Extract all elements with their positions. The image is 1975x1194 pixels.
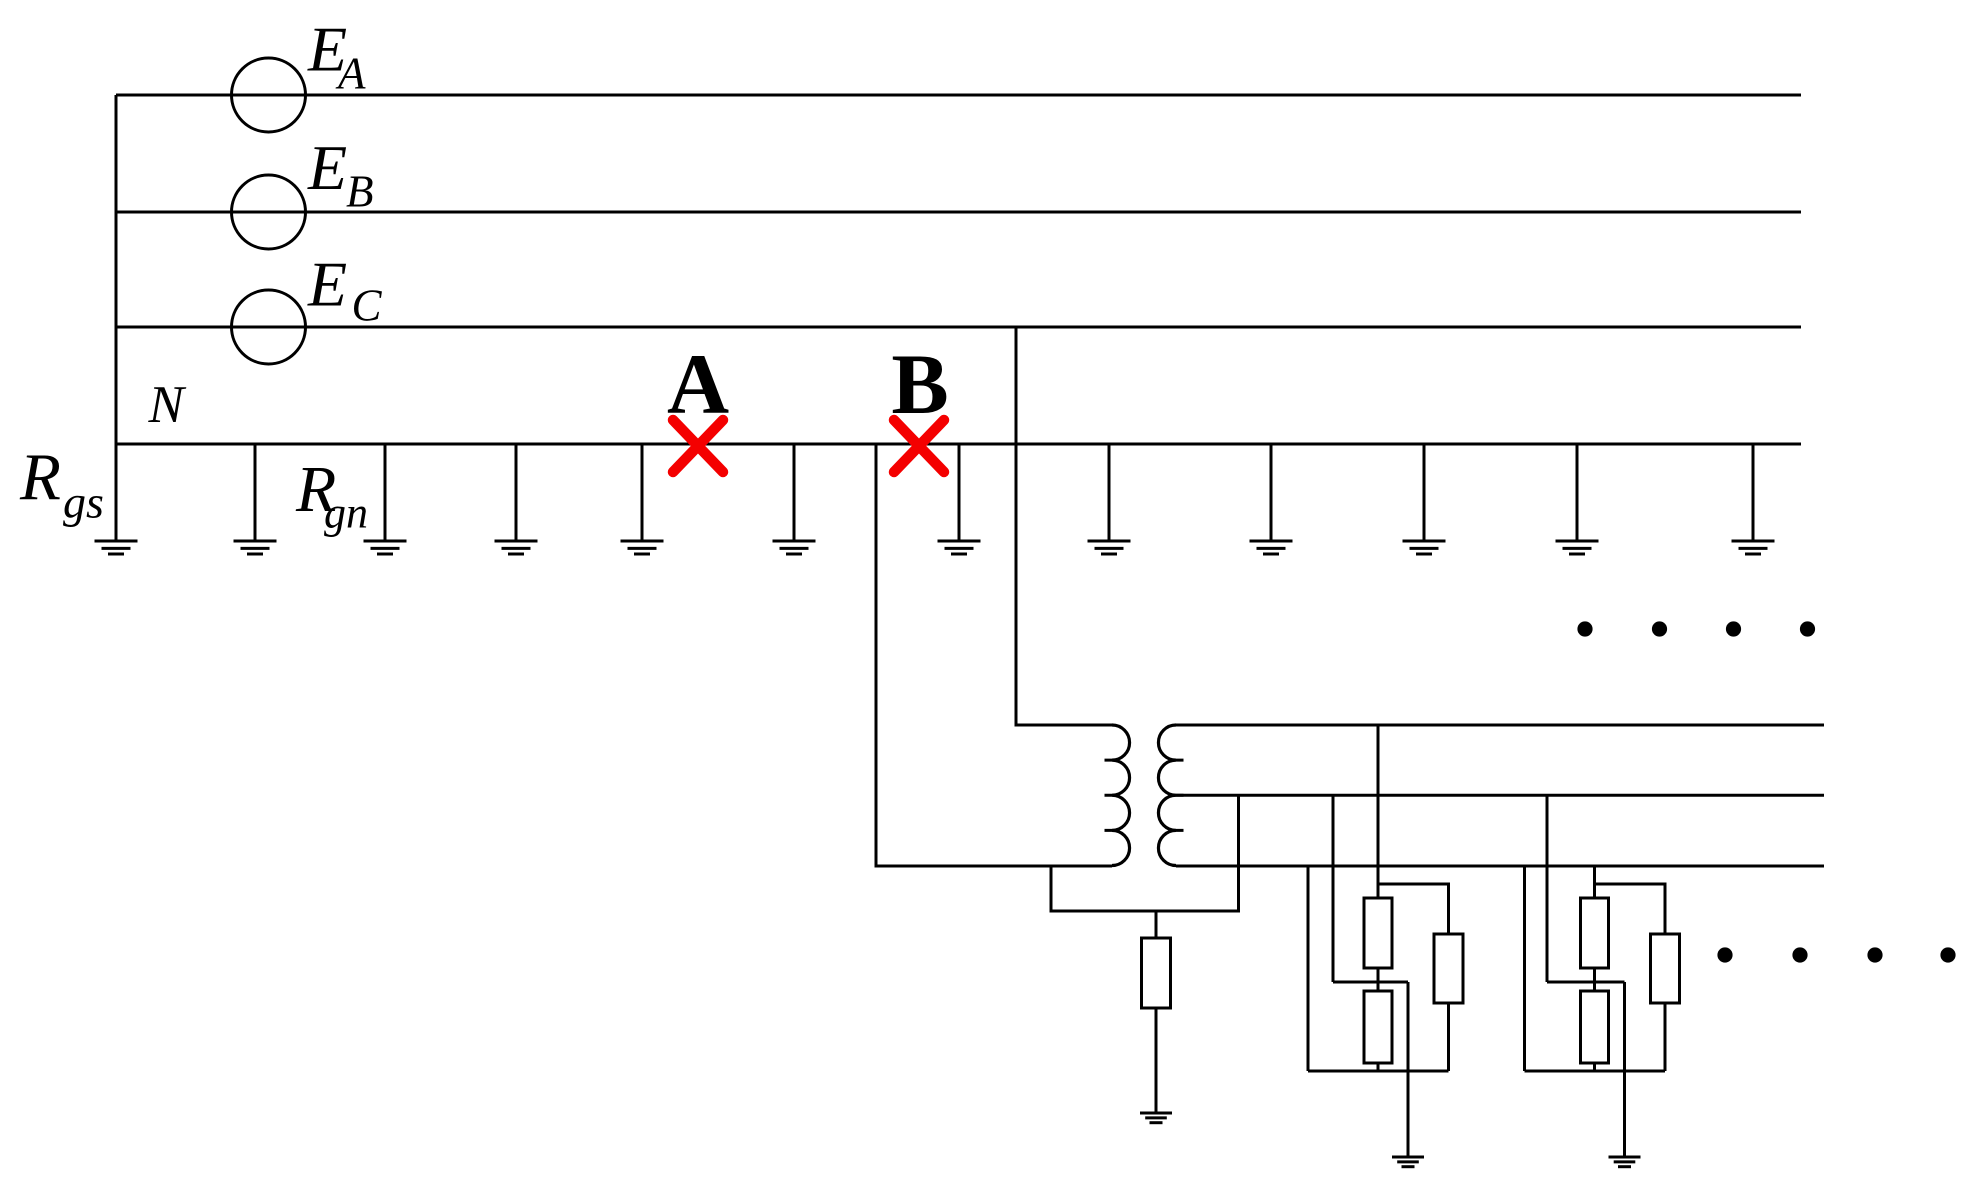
svg-text:N: N <box>148 376 187 434</box>
fault mark X at B <box>894 420 944 472</box>
transformer T1 secondary winding <box>1158 725 1176 866</box>
wire: secondary phase line b (middle) <box>1176 794 1824 797</box>
resistor R2 (load lower) [load 2] <box>1581 991 1609 1063</box>
ground: system grounding Rgs <box>95 541 138 554</box>
wire: load bottom rail [load 2] <box>1525 1070 1666 1073</box>
ground: neutral grounding Rgn 11 <box>1732 541 1775 554</box>
wire: neutral ground stub 11 <box>1752 444 1755 541</box>
ground: neutral grounding Rgn 9 <box>1403 541 1446 554</box>
wire: R3 top connector [load 1] <box>1378 884 1449 934</box>
ground: neutral grounding Rgn 2 <box>364 541 407 554</box>
wire: mid-node ground drop [load 1] <box>1407 982 1410 1157</box>
wire: secondary phase line c (bottom) <box>1176 865 1824 868</box>
transformer T1 primary winding cusp ticks <box>1105 760 1113 830</box>
wire: neutral ground stub 10 <box>1576 444 1579 541</box>
resistor R1 (load upper) [load 1] <box>1364 898 1392 968</box>
wire: load leg from bottom phase line [load 2] <box>1523 866 1526 1071</box>
wire: neutral ground stub 1 <box>254 444 257 541</box>
resistor R2 (load lower) [load 1] <box>1364 991 1392 1063</box>
ground: neutral grounding Rgn 6 <box>938 541 981 554</box>
wire: R1-R2 junction lead [load 1] <box>1377 968 1380 991</box>
wire: load leg from middle phase line [load 1] <box>1332 795 1335 982</box>
wire: neutral jumper horizontal <box>1050 910 1241 913</box>
ground: neutral grounding Rgn 8 <box>1250 541 1293 554</box>
wire: R3 bottom lead [load 1] <box>1447 1003 1450 1071</box>
wire: neutral ground stub 7 <box>1108 444 1111 541</box>
svg-text:Rgn: Rgn <box>295 453 368 538</box>
wire: load chain vertical [load 2] <box>1593 866 1596 898</box>
wire: neutral resistor bottom lead <box>1155 1008 1158 1113</box>
wire: phase B bus line <box>116 211 1801 214</box>
wire: primary-side neutral jumper (left drop) <box>1050 866 1053 911</box>
wire: R3 top connector [load 2] <box>1595 884 1666 934</box>
wire: load leg from middle phase line [load 2] <box>1546 795 1549 982</box>
ground: neutral grounding Rgn 1 <box>234 541 277 554</box>
svg-text:EC: EC <box>307 249 383 331</box>
transformer T1 primary winding <box>1112 725 1130 866</box>
ground: neutral grounding Rgn 3 <box>495 541 538 554</box>
wire: neutral ground stub 2 <box>384 444 387 541</box>
wire: secondary phase line a (top) <box>1176 724 1824 727</box>
wire: neutral ground stub 3 <box>515 444 518 541</box>
source E_C (circle) <box>232 290 306 364</box>
wire: R2 bottom lead [load 1] <box>1377 1063 1380 1071</box>
wire: neutral bus line N <box>116 443 1801 446</box>
wire: phase A bus line <box>116 94 1801 97</box>
svg-text:EB: EB <box>307 132 374 217</box>
ground: neutral grounding Rgn 10 <box>1556 541 1599 554</box>
ground: load mid-node [load 2] <box>1609 1157 1641 1167</box>
wire: neutral ground stub 5 <box>793 444 796 541</box>
transformer T1 secondary winding cusp ticks <box>1176 760 1184 830</box>
wire: mid-node horizontal [load 1] <box>1333 981 1408 984</box>
wire: neutral ground stub 4 <box>641 444 644 541</box>
wire: load bottom rail [load 1] <box>1308 1070 1449 1073</box>
source E_B (circle) <box>232 175 306 249</box>
wire: neutral ground stub 9 <box>1423 444 1426 541</box>
ground: transformer neutral <box>1140 1113 1172 1123</box>
ground: neutral grounding Rgn 5 <box>773 541 816 554</box>
wire: neutral jumper right drop from middle line <box>1237 795 1240 911</box>
wire: load leg from bottom phase line [load 1] <box>1307 866 1310 1071</box>
source E_A (circle) <box>232 58 306 132</box>
wire: R2 bottom lead [load 2] <box>1593 1063 1596 1071</box>
wire: neutral feeder to transformer primary bottom <box>876 444 1112 866</box>
ground: neutral grounding Rgn 7 <box>1088 541 1131 554</box>
wire: R1-R2 junction lead [load 2] <box>1593 968 1596 991</box>
ellipsis dots (more loads, bottom) <box>1717 947 1955 962</box>
ellipsis dots (more feeders, top) <box>1577 621 1815 636</box>
wire: load chain vertical [load 1] <box>1377 725 1380 898</box>
svg-text:EA: EA <box>307 14 366 99</box>
wire: mid-node horizontal [load 2] <box>1547 981 1625 984</box>
resistor R3 (load parallel) [load 1] <box>1434 934 1463 1003</box>
resistor Rn (transformer neutral grounding) <box>1142 938 1171 1008</box>
wire: mid-node ground drop [load 2] <box>1623 982 1626 1157</box>
fault mark X at A <box>673 420 723 472</box>
wire: neutral resistor top lead <box>1155 911 1158 938</box>
wire: neutral ground stub 6 <box>958 444 961 541</box>
wire: phase C bus line <box>116 326 1801 329</box>
wire: phase C feeder to transformer primary top <box>1016 327 1112 725</box>
resistor R1 (load upper) [load 2] <box>1581 898 1609 968</box>
wire: R3 bottom lead [load 2] <box>1664 1003 1667 1071</box>
resistor R3 (load parallel) [load 2] <box>1651 934 1680 1003</box>
ground: neutral grounding Rgn 4 <box>621 541 664 554</box>
wire: source neutral vertical (Rgs branch) <box>115 95 118 541</box>
wire: neutral ground stub 8 <box>1270 444 1273 541</box>
ground: load mid-node [load 1] <box>1392 1157 1424 1167</box>
svg-text:Rgs: Rgs <box>19 440 104 528</box>
